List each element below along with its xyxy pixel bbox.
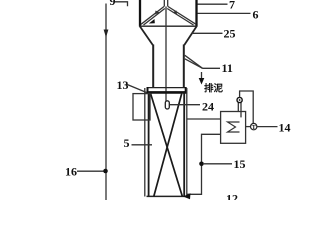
column C1 left inner wall: [148, 92, 150, 197]
column C1 left outer wall: [144, 88, 146, 197]
label 6 leader: [198, 12, 251, 14]
cone left wall: [141, 7, 164, 25]
svg-text:24: 24: [202, 100, 214, 114]
arrow tick on left cone: [155, 11, 160, 15]
column C1 right outer wall: [186, 88, 188, 197]
pipe: column to heat exchanger upper: [187, 118, 221, 120]
return arrow into column: [183, 193, 191, 199]
flange between neck and column: [147, 87, 187, 89]
cone left wall inner: [144, 9, 165, 26]
column C1 bottom: [147, 195, 190, 197]
svg-text:14: 14: [279, 121, 291, 135]
neck left wall: [152, 45, 154, 89]
label 15 leader: [204, 163, 232, 165]
label 24 leader: [170, 104, 201, 106]
svg-text:13: 13: [117, 78, 129, 92]
pipe: riser top loop: [240, 91, 254, 123]
vessel V1 right wall: [195, 0, 197, 27]
nozzle capsule 24: [165, 101, 169, 109]
label 7 leader: [198, 3, 228, 5]
central tube top right line: [167, 0, 169, 7]
svg-text:9: 9: [110, 0, 116, 8]
taper left wall: [140, 27, 153, 46]
svg-text:16: 16: [65, 165, 77, 179]
central tube top: [163, 0, 165, 7]
label 5 leader: [132, 144, 153, 146]
pipe: vent riser from box top: [237, 103, 239, 112]
svg-text:15: 15: [234, 157, 246, 171]
arrow: flow arrow on left pipe: [104, 30, 109, 38]
arrow tick on right cone: [173, 11, 178, 15]
label 13 leader: [126, 84, 147, 93]
central pipe: [165, 7, 167, 102]
label 11 leader line: [203, 67, 221, 69]
pipe: box right to TI: [246, 126, 251, 128]
arrow blob lower left cone: [149, 19, 155, 24]
label 11 leader arrow: [185, 55, 203, 68]
svg-text:T: T: [252, 125, 256, 131]
heat exchanger E1 box: [221, 112, 246, 144]
cone right wall inner: [167, 9, 193, 26]
vessel V1 left wall: [139, 0, 141, 27]
column packing X diagonal 2: [154, 94, 182, 197]
wire: leader from label 9: [115, 2, 128, 6]
vessel V1 bottom line: [139, 25, 198, 27]
column C1 right inner wall: [183, 92, 185, 197]
cone right wall: [168, 7, 196, 25]
wire: leader from label 16: [77, 170, 104, 172]
svg-text:25: 25: [224, 27, 236, 41]
column packing X diagonal 1: [151, 94, 183, 197]
wire: left feed pipe: [105, 4, 107, 201]
temperature indicator TI circle: [251, 123, 257, 129]
pump/valve circle on riser: [237, 97, 242, 102]
pipe: heat exchanger bottom return: [187, 134, 221, 194]
taper right wall: [184, 27, 196, 46]
svg-text:6: 6: [253, 8, 259, 22]
svg-text:5: 5: [124, 136, 130, 150]
label 14 leader: [257, 126, 278, 128]
heat exchanger coil sigma: [228, 122, 240, 132]
svg-text:排泥: 排泥: [204, 83, 224, 95]
svg-text:11: 11: [222, 61, 233, 75]
sludge discharge arrow: [201, 72, 203, 78]
svg-text:7: 7: [229, 0, 235, 12]
neck right wall: [183, 45, 185, 89]
box 13 on left of column: [133, 94, 150, 120]
label 25 leader: [192, 32, 223, 34]
node 16 junction dot: [103, 169, 108, 174]
svg-text:12: 12: [226, 192, 238, 201]
node 15 junction dot: [199, 162, 204, 167]
